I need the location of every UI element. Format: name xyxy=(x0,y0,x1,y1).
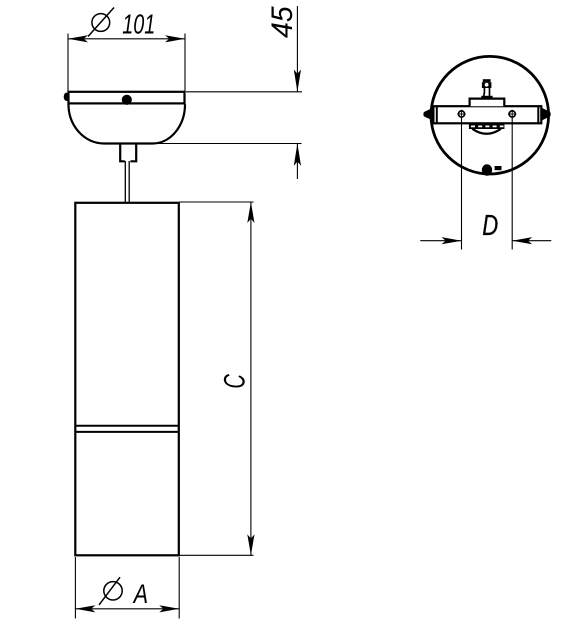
top view dome arc xyxy=(472,129,501,134)
top view bar left cap line xyxy=(436,106,438,123)
top view outer circle xyxy=(431,56,549,174)
canopy center dot xyxy=(122,95,132,105)
dimension A arrow left xyxy=(75,605,95,612)
top view cable grip body xyxy=(482,82,492,88)
dimension 45 line lower xyxy=(296,144,298,180)
cylinder joint lower line xyxy=(75,431,179,433)
dimension A extension line left xyxy=(74,557,76,619)
top view bottom small square xyxy=(495,166,502,170)
top view bottom screw xyxy=(482,164,492,175)
cord left line xyxy=(124,161,126,203)
dimension C arrow down xyxy=(247,534,254,555)
cord right line xyxy=(128,161,130,203)
lamp body cylinder xyxy=(75,203,179,556)
dimension A diameter symbol xyxy=(99,577,122,605)
top view mounting bar xyxy=(433,106,541,123)
dimension D line right segment xyxy=(512,240,551,242)
dimension D101 extension line right xyxy=(184,34,186,105)
top view cable grip base xyxy=(481,96,492,99)
dimension 45 arrow down xyxy=(294,70,301,92)
svg-text:D: D xyxy=(482,210,498,242)
dimension 45 arrow up xyxy=(294,144,301,166)
dimension D101 line xyxy=(68,38,185,40)
dimension 45 extension line bottom xyxy=(153,143,302,145)
dimension C arrow up xyxy=(247,202,254,223)
dimension D arrow left-pointing xyxy=(512,237,532,244)
top view cable grip right leg xyxy=(489,88,491,98)
cord grip box xyxy=(120,144,136,162)
dimension A line xyxy=(75,608,179,610)
dimension 45 extension line top xyxy=(186,91,302,93)
top view cable grip left leg xyxy=(483,88,486,98)
top view bar right cap line xyxy=(537,106,539,123)
canopy dome xyxy=(69,104,186,143)
dimension D101 extension line left xyxy=(67,34,69,105)
top view left tab xyxy=(423,108,433,121)
canopy plate xyxy=(69,92,185,104)
dimension D extension line left xyxy=(461,118,463,250)
svg-text:C: C xyxy=(219,374,252,389)
top view right tab xyxy=(541,108,550,121)
dimension D arrow right-pointing xyxy=(442,237,462,244)
top view screw hole right xyxy=(508,110,516,118)
dimension D101 arrow left xyxy=(68,35,88,42)
dimension A arrow right xyxy=(159,605,179,612)
svg-text:101: 101 xyxy=(122,9,155,40)
dimension D line left segment xyxy=(420,240,461,242)
dimension C line xyxy=(250,202,252,555)
dimension 45 line upper xyxy=(296,6,298,92)
dimension D extension line right xyxy=(511,118,513,250)
dimension A extension line right xyxy=(178,557,180,619)
dimension D101 diameter symbol xyxy=(88,8,114,37)
canopy side screw nub xyxy=(64,93,70,101)
top view dome band xyxy=(469,124,505,129)
dimension C extension line bottom xyxy=(179,554,254,556)
top view terminal block xyxy=(470,99,505,107)
dimension D101 arrow right xyxy=(165,35,185,42)
top view cable grip cap xyxy=(483,79,491,82)
svg-text:A: A xyxy=(132,579,148,609)
cylinder joint upper line xyxy=(75,425,179,427)
top view screw hole left xyxy=(457,110,465,118)
dimension C extension line top xyxy=(179,201,254,203)
svg-text:45: 45 xyxy=(266,6,299,38)
